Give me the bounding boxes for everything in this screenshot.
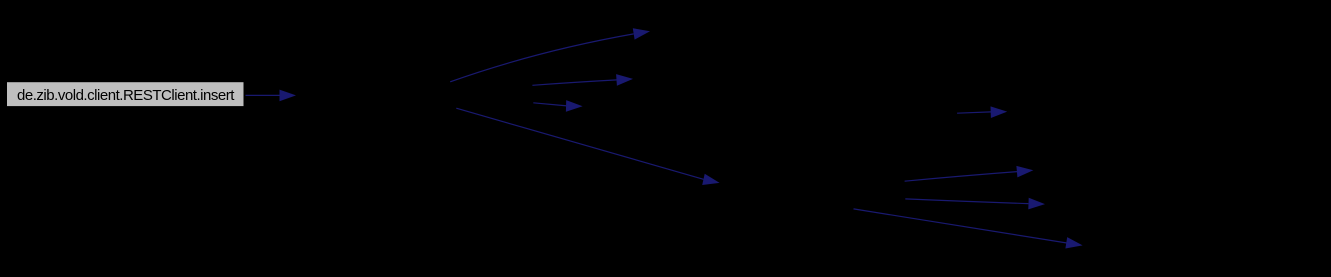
edge E7: lower node -> hidden node (arrow) <box>905 166 1034 181</box>
edge E8: lower node -> hidden node (arrow) <box>905 198 1045 210</box>
edge E4: node 2 -> hidden node (short arrow) <box>533 100 582 112</box>
edge E3: node 2 -> hidden node (arrow) <box>532 74 633 86</box>
edge E6: hidden node -> hidden node (short arrow) <box>957 106 1007 118</box>
node box de.zib.vold.client.RESTClient.insert <box>7 82 245 107</box>
edge E5: node 2 -> lower hidden node (long diagonal arrow) <box>456 108 719 185</box>
edge E2: node 2 -> top hidden node (curved arrow) <box>450 28 650 82</box>
edge E9: lower node -> bottom hidden node (long arrow) <box>854 209 1083 249</box>
svg-text:de.zib.vold.client.RESTClient.: de.zib.vold.client.RESTClient.insert <box>17 87 235 104</box>
edge E1: RESTClient.insert -> hidden node 2 (arrow) <box>246 90 297 102</box>
